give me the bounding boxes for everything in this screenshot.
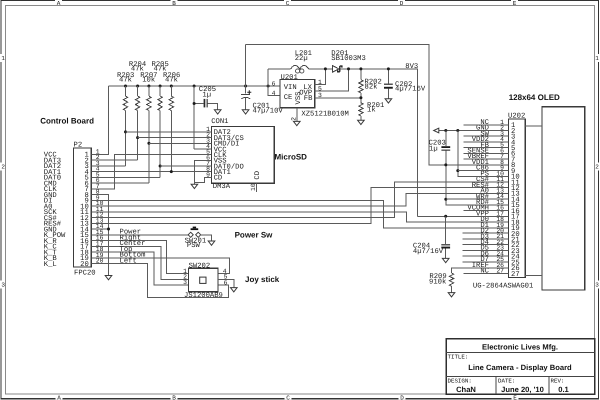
svg-text:22µ: 22µ — [295, 55, 308, 63]
wire DAT0 P2 pin5 to R205 — [91, 176, 160, 178]
wire IREF row to R209 — [452, 268, 509, 273]
svg-text:E: E — [513, 394, 517, 400]
wire K_R P2 pin16 to SW202 pin1 — [91, 241, 188, 274]
svg-text:Power Sw: Power Sw — [235, 231, 274, 240]
junction C204 on VPP row — [444, 215, 447, 218]
svg-text:2: 2 — [1, 164, 5, 171]
U202 outside pin numbers 1-27 — [496, 119, 504, 275]
svg-text:8V3: 8V3 — [405, 63, 418, 71]
svg-text:CD: CD — [254, 171, 262, 180]
svg-text:E: E — [513, 0, 517, 7]
connector CON1 box — [212, 127, 275, 184]
svg-text:D: D — [400, 0, 404, 7]
ground symbol at SW201 — [208, 241, 215, 245]
CON1 outside pin numbers 1-9 — [206, 126, 210, 179]
ground symbol at C201 — [242, 110, 249, 114]
joystick SW202 box — [189, 268, 218, 292]
junction R203 to CON1 DAT2 — [124, 130, 127, 133]
svg-text:910k: 910k — [429, 277, 446, 286]
P2 net name labels — [44, 152, 66, 269]
svg-text:DM3A: DM3A — [213, 183, 231, 191]
svg-text:DESIGN:: DESIGN: — [448, 377, 472, 384]
wire K_B P2 pin19 to SW202 pin4 — [91, 258, 229, 274]
resistor R207 — [140, 72, 157, 183]
svg-text:Left: Left — [120, 256, 137, 265]
junction R205 to CON1 DAT0 — [159, 165, 162, 168]
svg-text:FB: FB — [304, 95, 313, 103]
svg-text:June 20, '10: June 20, '10 — [501, 385, 544, 394]
SW202 pin numbers right 4 5 6 — [223, 268, 228, 287]
P2 inside pin numbers 1-20 — [80, 152, 89, 269]
regulator U201 box — [280, 80, 315, 108]
connector P2 box — [74, 148, 92, 267]
wire RES# P2 pin13 bus to OLED RES# — [91, 188, 508, 224]
svg-text:82k: 82k — [365, 82, 378, 91]
svg-text:3: 3 — [183, 279, 187, 286]
svg-text:3: 3 — [595, 282, 599, 289]
svg-text:MicroSD: MicroSD — [275, 152, 308, 161]
wire CON1 VCC row — [194, 148, 212, 150]
svg-text:3: 3 — [1, 282, 5, 289]
wire K_L P2 pin20 around bottom to SW202 pin6 — [91, 264, 228, 298]
frame row labels left 1 2 3 — [1, 55, 5, 289]
svg-text:JS1200AB9: JS1200AB9 — [184, 292, 223, 300]
svg-text:K_L: K_L — [44, 261, 57, 269]
svg-text:CE: CE — [284, 94, 293, 102]
wire GND P2 pin8 down to ground — [91, 195, 108, 276]
svg-text:128x64 OLED: 128x64 OLED — [509, 93, 560, 102]
svg-text:4µ7/16V: 4µ7/16V — [395, 85, 426, 94]
junction FB node — [359, 96, 362, 99]
capacitor C204 — [413, 216, 450, 258]
svg-text:REV:: REV: — [551, 377, 565, 384]
svg-text:A: A — [57, 394, 61, 400]
wire OLED GND row with arrow — [439, 130, 509, 132]
wire OVP pin to top row — [315, 69, 349, 91]
wire CE riser — [268, 69, 280, 96]
wire VBAT riser to top rail — [245, 45, 247, 87]
wire U202 to panel top link — [525, 125, 542, 127]
resistor R206 — [163, 72, 180, 172]
wire GND bus vertical — [458, 131, 509, 177]
svg-text:UG-2864ASWAG01: UG-2864ASWAG01 — [473, 283, 533, 291]
svg-text:CD: CD — [214, 175, 223, 183]
svg-text:Electronic Lives Mfg.: Electronic Lives Mfg. — [482, 343, 558, 352]
resistor R205 — [152, 61, 169, 178]
junction GND pins 8-14 — [107, 228, 110, 231]
svg-text:47k: 47k — [119, 76, 132, 85]
P2 outside pin numbers 1-20 — [96, 148, 104, 264]
svg-text:XZ5121B010M: XZ5121B010M — [301, 111, 348, 119]
CON1 pin10 stub and rotated number — [255, 183, 257, 192]
wire 8V3 output row — [340, 69, 418, 216]
wire SW202 pin5 to ground — [218, 279, 234, 287]
svg-text:6: 6 — [224, 280, 228, 287]
svg-text:4: 4 — [272, 90, 276, 97]
ground symbol at SW202 — [231, 288, 238, 292]
svg-text:SB1003M3: SB1003M3 — [331, 55, 366, 63]
svg-text:6: 6 — [272, 81, 276, 88]
svg-text:0.1: 0.1 — [558, 385, 569, 394]
junction GND bus to C86 — [456, 169, 459, 172]
frame row labels right 1 2 3 — [595, 55, 599, 289]
svg-text:VSS: VSS — [295, 92, 303, 105]
wire FB row — [315, 97, 361, 99]
ground arrow symbol — [434, 128, 439, 133]
svg-text:VIN: VIN — [284, 84, 297, 92]
svg-text:1k: 1k — [367, 106, 376, 115]
wire CON1 DAT0 row — [160, 165, 212, 167]
wire VCC P2 pin1 riser — [91, 86, 108, 154]
wire K_T P2 pin18 to SW202 pin3 — [91, 252, 188, 285]
junction R207 to CON1 CMD — [147, 142, 150, 145]
svg-text:B: B — [172, 394, 176, 400]
svg-text:U201: U201 — [281, 74, 298, 82]
resistor R201 — [359, 102, 385, 120]
svg-text:DATE:: DATE: — [498, 377, 515, 384]
svg-text:FPC20: FPC20 — [74, 270, 96, 278]
junction OVP on top row — [347, 67, 350, 70]
junction VDD net to WR# — [444, 198, 447, 201]
junction C203 on GND row — [444, 129, 447, 132]
wire SCK P2 pin11 bus to OLED D0 — [91, 212, 508, 222]
svg-text:A: A — [57, 0, 61, 7]
wire top rail VBAT to OLED VDD1 — [246, 45, 509, 165]
svg-text:Control Board: Control Board — [40, 116, 94, 125]
frame column labels top A B C D E — [57, 0, 517, 7]
svg-text:ChaN: ChaN — [456, 385, 476, 394]
SW202 pin numbers left 1 2 3 — [183, 268, 187, 286]
wire CON1 CMD row — [149, 142, 212, 144]
resistor R202 — [359, 69, 382, 103]
CON1 inside pin name labels — [214, 129, 244, 183]
ground symbol at C204 — [442, 258, 449, 262]
svg-text:47k: 47k — [165, 76, 178, 85]
junction R202 top — [359, 67, 362, 70]
svg-text:Line Camera - Display Board: Line Camera - Display Board — [468, 363, 572, 372]
svg-text:47µ/10V: 47µ/10V — [253, 107, 284, 116]
svg-text:PSW: PSW — [187, 242, 201, 250]
junction R206 on DAT1 row — [170, 170, 173, 173]
svg-text:1: 1 — [595, 55, 599, 62]
resistor R204 — [129, 61, 146, 160]
wire U202 to panel bottom link — [525, 274, 542, 276]
resistor R203 — [117, 72, 134, 166]
wire CON1 CD to ground — [194, 177, 211, 182]
wire GND P2 pin14 — [91, 228, 108, 230]
OLED panel outline — [542, 107, 585, 290]
ground symbol at C205 — [214, 110, 221, 114]
junction C202 top — [387, 67, 390, 70]
junction C205 on VCC riser — [193, 102, 196, 105]
wire VCC rail — [109, 85, 281, 87]
svg-text:10k: 10k — [142, 76, 155, 85]
svg-text:10: 10 — [250, 183, 257, 191]
title block — [446, 339, 595, 395]
diode D201 — [331, 50, 366, 72]
svg-text:20: 20 — [80, 261, 89, 269]
wire WR# row — [446, 198, 509, 200]
svg-text:Joy stick: Joy stick — [245, 275, 280, 284]
svg-text:1µ: 1µ — [429, 145, 438, 153]
wire C86 row — [458, 170, 509, 172]
U201 pin2 ground stem — [296, 108, 298, 122]
svg-text:27: 27 — [511, 271, 520, 279]
U202 net name labels — [467, 119, 489, 276]
connector U202 box — [509, 119, 526, 278]
wire DAT1 P2 pin4 to CON1 pin8 — [91, 171, 211, 173]
wire CS# P2 pin12 bus to OLED CS# — [91, 182, 508, 218]
svg-text:1µ: 1µ — [202, 91, 211, 99]
ground symbol at R209 — [448, 293, 455, 297]
ground symbol at U201 pin2 — [294, 121, 301, 125]
wire DAT3 P2 pin2 to R204 — [91, 159, 137, 161]
resistor R209 — [429, 273, 454, 293]
U202 inside pin numbers 1-27 — [511, 122, 520, 279]
inductor L201 — [268, 50, 333, 73]
wire CON1 VSS to ground — [194, 160, 211, 184]
U202 short stub wires — [463, 125, 509, 274]
svg-text:2: 2 — [595, 164, 599, 171]
svg-text:CON1: CON1 — [211, 118, 228, 126]
switch SW201 push button — [185, 227, 212, 251]
wire CLK P2 pin7 jog to CON1 pin5 — [91, 155, 211, 189]
ground symbol at R201 — [358, 120, 365, 124]
junction C203 bottom to VDD1 row — [444, 163, 447, 166]
svg-text:NC: NC — [480, 268, 489, 276]
junction GND bus on GND row — [456, 129, 459, 132]
svg-text:C: C — [286, 394, 290, 400]
wire A0 P2 pin10 bus to OLED A0 — [91, 193, 508, 206]
capacitor C203 — [429, 131, 509, 205]
svg-text:D: D — [400, 394, 404, 400]
SW202 inner square — [200, 277, 206, 283]
wire LX pin to top row — [315, 69, 326, 85]
wire CON1 DAT2 row — [126, 131, 212, 133]
junction LX on top row — [324, 67, 327, 70]
svg-text:1: 1 — [1, 55, 5, 62]
wire CMD P2 pin6 to R207 — [91, 182, 149, 184]
wire DAT2 P2 pin3 to R203 — [91, 165, 125, 167]
svg-text:4µ7/16V: 4µ7/16V — [413, 247, 444, 256]
svg-text:U202: U202 — [508, 112, 525, 120]
frame column labels bottom A B C D E — [57, 394, 517, 400]
wire K_POW P2 pin15 to SW201 — [91, 234, 189, 236]
svg-text:B: B — [172, 0, 176, 7]
node rail junction dots — [124, 85, 270, 88]
capacitor C201 polarized — [241, 86, 283, 116]
ground symbol at C202 — [385, 99, 392, 103]
wire CON1 DAT3 row — [138, 137, 212, 139]
wire DI P2 pin9 bus to OLED D1 — [91, 200, 508, 227]
junction R204 to CON1 DAT3 — [136, 136, 139, 139]
capacitor C205 — [194, 86, 218, 149]
svg-text:P2: P2 — [74, 142, 83, 150]
svg-text:TITLE:: TITLE: — [448, 354, 469, 361]
capacitor C202 — [384, 69, 426, 99]
wire VPP row from 8V3 — [418, 215, 509, 217]
ground symbol below P2 — [105, 276, 112, 280]
wire K_C P2 pin17 to SW202 pin2 — [91, 246, 188, 279]
svg-text:C: C — [286, 0, 290, 7]
ground symbol below CON1 — [191, 184, 198, 188]
svg-text:SW202: SW202 — [189, 262, 211, 270]
